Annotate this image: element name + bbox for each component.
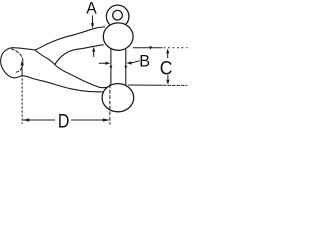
shackle bow: hidden inner arc of loop (dashed) [11,49,23,72]
dimension B arrows [99,61,139,65]
node D-left extension line [21,60,24,123]
shackle bow: top leg lower edge R [55,45,104,65]
arrowhead on left shaft [109,66,112,69]
pin ring head (eye) [106,5,129,28]
svg-text:C: C [160,56,173,78]
pin head ball [103,23,133,50]
dimension A arrow (up) [93,51,95,56]
pin centerline through lower ear (dashed) [109,85,111,125]
svg-text:A: A [86,0,97,18]
dimension C arrows [166,48,169,84]
pin shaft right edge [125,48,127,85]
svg-text:D: D [58,110,70,132]
dimension A label arrow (down) [91,16,95,57]
lower ear circle [102,84,134,112]
dimension C bottom extension line (dash-dot) [129,84,187,86]
dimension C top extension line (dash-dot) [133,46,187,49]
shackle bow: fork lower edge P [35,50,55,65]
pin ring hole [113,10,123,20]
shackle bow: loop outer edge + bottom edge S [1,48,104,92]
arrowhead on right shaft [124,66,127,69]
shackle bow: top leg upper edge Q [35,27,105,50]
dimension D line with arrows [22,118,110,121]
svg-text:B: B [139,51,150,70]
shackle bow: bottom leg upper edge T [55,65,107,88]
pin shaft left edge [110,49,112,85]
